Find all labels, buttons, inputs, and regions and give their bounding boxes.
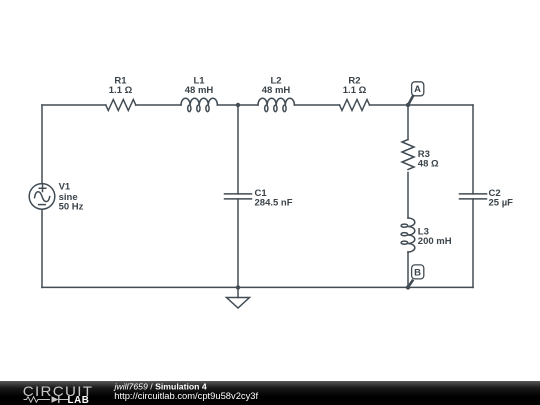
svg-text:48 mH: 48 mH — [185, 85, 214, 96]
svg-text:B: B — [414, 267, 421, 278]
node B flag — [408, 265, 424, 287]
svg-text:48 Ω: 48 Ω — [418, 158, 439, 169]
wire branch below L3 — [407, 252, 409, 287]
svg-text:200 mH: 200 mH — [418, 236, 452, 247]
svg-text:48 mH: 48 mH — [262, 85, 291, 96]
inductor L2 — [258, 98, 294, 105]
svg-text:A: A — [414, 84, 421, 95]
svg-text:50 Hz: 50 Hz — [59, 202, 84, 213]
capacitor C2 — [460, 194, 487, 199]
junction node B dot — [406, 285, 410, 289]
svg-text:LAB: LAB — [68, 395, 90, 405]
inductor L1 — [181, 98, 217, 105]
wire branch A above R3 — [407, 105, 409, 140]
wire middle vertical below C1 — [237, 199, 239, 288]
wire top rail segment L1-L2 — [217, 104, 258, 106]
resistor R2 — [340, 100, 370, 111]
voltage source V1 — [29, 184, 55, 210]
wire top rail segment R2 to right corner — [370, 104, 474, 106]
svg-text:1.1 Ω: 1.1 Ω — [109, 85, 133, 96]
inductor L3 — [408, 218, 415, 252]
svg-text:284.5 nF: 284.5 nF — [255, 198, 293, 209]
junction node at C1-ground — [236, 285, 240, 289]
wire top rail segment R1-L1 — [136, 104, 181, 106]
node A flag — [408, 82, 424, 105]
resistor R3 — [402, 140, 414, 170]
svg-text:25 µF: 25 µF — [489, 198, 514, 209]
logo diode — [52, 396, 59, 403]
wire middle vertical above C1 — [237, 105, 239, 194]
wire top rail segment L2-R2 — [294, 104, 339, 106]
junction node at L1-C1 — [236, 103, 240, 107]
logo resistor zigzag — [24, 397, 50, 403]
capacitor C1 — [225, 194, 252, 199]
svg-text:http://circuitlab.com/cpt9u58v: http://circuitlab.com/cpt9u58v2cy3f — [114, 390, 258, 401]
svg-text:1.1 Ω: 1.1 Ω — [343, 85, 367, 96]
wire right vertical below C2 — [472, 199, 474, 288]
resistor R1 — [106, 100, 136, 111]
ground — [237, 287, 239, 297]
junction node A dot — [406, 103, 410, 107]
wire branch R3-L3 — [407, 173, 409, 219]
wire bottom rail — [42, 286, 473, 288]
wire left vertical top (V1 to top rail) — [41, 105, 43, 184]
wire left vertical bottom (V1 to bottom rail) — [41, 209, 43, 287]
wire top rail segment V1-R1 — [42, 104, 106, 106]
wire right vertical above C2 — [472, 105, 474, 194]
